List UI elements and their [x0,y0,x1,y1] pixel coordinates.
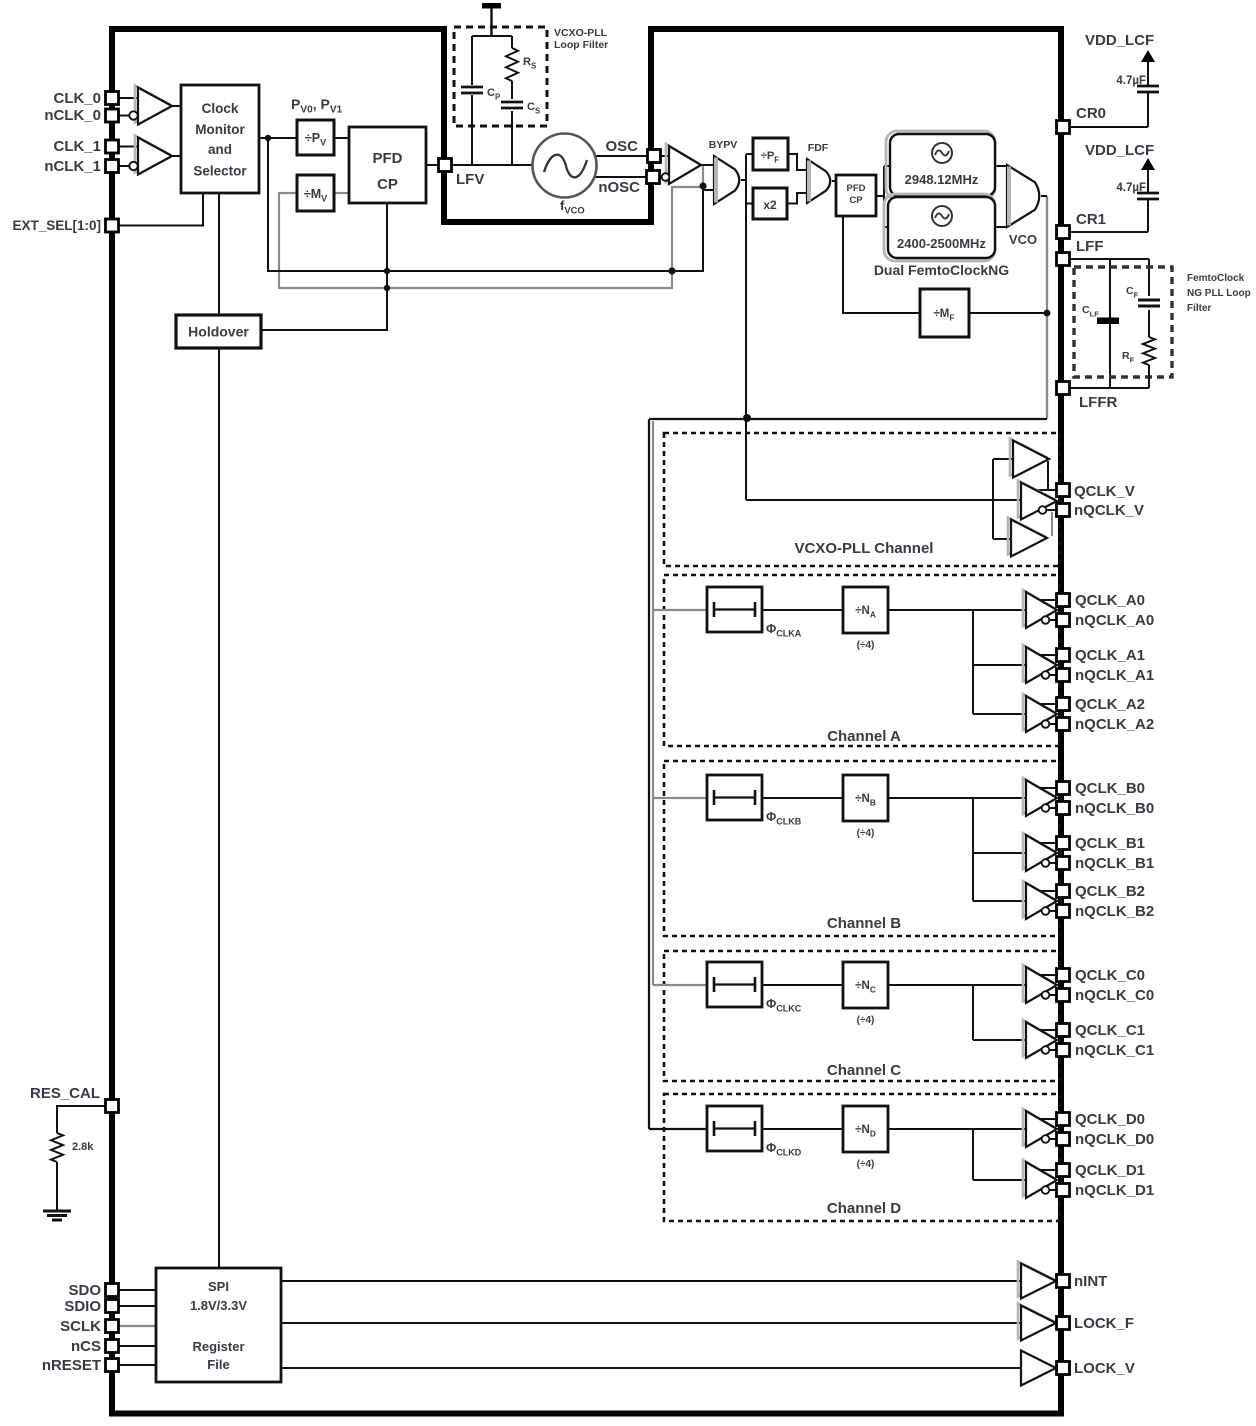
capacitor C_F [1138,299,1160,302]
svg-text:SCLK: SCLK [60,1318,101,1335]
svg-text:NG PLL Loop: NG PLL Loop [1187,288,1251,299]
pin QCLK_D1 [1057,1164,1070,1177]
svg-text:LFFR: LFFR [1079,394,1117,411]
pin nOSC [647,171,660,184]
wire: RES_CAL to external resistor [57,1106,107,1133]
svg-text:FDF: FDF [808,142,829,154]
wire: channel C phase block to divider N [762,984,843,986]
wire: bypass path from reference junction to BYPV mux [268,138,714,271]
wire: buffer1 output to Clock Monitor [172,155,181,157]
VCXO channel driver top [1010,439,1046,476]
wire: SPI to LOCK_V buffer [281,1367,1021,1369]
wire: nCLK_0 to input buffer bubble [119,115,130,117]
wire: VCC stem [490,8,492,36]
VCXO channel driver middle [1018,481,1054,518]
wire: channel D driver branch vertical [972,1129,974,1180]
wire: divider P_V to PFD CP [334,137,349,139]
svg-text:nQCLK_D0: nQCLK_D0 [1075,1131,1154,1148]
svg-text:VDD_LCF: VDD_LCF [1085,32,1154,49]
wire: SPI input SDO [119,1289,156,1291]
VCO mux [1007,165,1039,227]
wire: channel C branch to driver at y=1040 [973,1039,1025,1041]
svg-text:Channel B: Channel B [827,915,901,932]
svg-text:x2: x2 [763,198,777,212]
output driver QCLK_C1 [1023,1020,1054,1056]
pin LOCK_V [1057,1362,1070,1375]
wire: FemtoClock VCO output down (gray) [1046,196,1048,419]
wire: channel A branch to driver at y=714 [973,713,1025,715]
svg-text:nQCLK_B1: nQCLK_B1 [1075,855,1154,872]
svg-text:PFD: PFD [847,183,866,194]
phase adjust block channel B [707,775,762,820]
pin LFV [439,159,452,172]
svg-text:QCLK_B2: QCLK_B2 [1075,883,1145,900]
svg-text:CP: CP [849,195,863,206]
capacitor C_LF (filled bar) [1097,318,1119,325]
input buffer CLK_0/nCLK_0 [135,86,169,123]
BYPV mux [714,156,739,204]
svg-text:Holdover: Holdover [188,324,249,340]
pin nCS [106,1340,119,1353]
svg-text:4.7µF: 4.7µF [1116,182,1146,194]
wire: VCXO driver nQ output to nQCLK_V [1047,509,1062,511]
svg-text:nRESET: nRESET [42,1357,101,1374]
capacitor C_P [461,86,483,89]
svg-text:LFF: LFF [1076,238,1104,255]
pin QCLK_B1 [1057,837,1070,850]
wire: channel A driver branch vertical [972,610,974,714]
pin QCLK_B0 [1057,782,1070,795]
svg-text:QCLK_V: QCLK_V [1074,483,1135,500]
pin SDO [106,1284,119,1297]
svg-text:nCS: nCS [71,1338,101,1355]
wire: VCO distribution horizontal to channels [649,418,1047,420]
divider N_B block [843,775,888,821]
wire: VCXO channel branch vertical [992,459,994,539]
svg-text:nQCLK_B0: nQCLK_B0 [1075,800,1154,817]
pin QCLK_C1 [1057,1024,1070,1037]
svg-text:nQCLK_C0: nQCLK_C0 [1075,987,1154,1004]
wire: VCXO driver top output [1047,461,1049,490]
VCXO channel driver bottom [1008,518,1044,555]
FDF mux [807,159,830,203]
svg-text:Channel A: Channel A [827,728,901,745]
wire: SPI input nRESET [119,1364,156,1366]
junction: gray feedback crossing [668,267,675,274]
svg-text:Monitor: Monitor [195,122,245,137]
svg-text:PFD: PFD [373,150,403,167]
wire: Clock Monitor to divider P_V [259,137,297,139]
x2 multiplier block [753,188,787,219]
svg-text:(÷4): (÷4) [857,1159,875,1170]
crystal oscillator 2400-2500MHz [884,194,995,261]
FemtoClock NG PLL loop filter dashed box [1074,267,1172,377]
wire: OSC to notch pin [595,155,649,157]
svg-text:VCXO-PLL: VCXO-PLL [554,27,608,39]
svg-text:SPI: SPI [208,1279,229,1294]
svg-text:QCLK_B1: QCLK_B1 [1075,835,1145,852]
svg-text:CR1: CR1 [1076,211,1106,228]
wire: channel B phase block to divider N [762,797,843,799]
junction: reference to bypass [265,135,271,141]
pin nQCLK_V [1057,504,1070,517]
wire: PFD CP to dual oscillators bus [876,195,884,197]
svg-text:nQCLK_A2: nQCLK_A2 [1075,716,1154,733]
svg-text:SDIO: SDIO [64,1298,101,1315]
pin LOCK_F [1057,1317,1070,1330]
wire: channel C input stub (gray) [653,984,707,986]
wire: nOSC pin to buffer bubble [660,176,662,178]
svg-text:nQCLK_V: nQCLK_V [1074,502,1144,519]
svg-text:Channel D: Channel D [827,1200,901,1217]
svg-text:and: and [208,142,232,157]
svg-text:Register: Register [192,1339,244,1354]
svg-text:QCLK_A0: QCLK_A0 [1075,592,1145,609]
resistor R_S [506,48,518,81]
svg-text:Channel C: Channel C [827,1062,901,1079]
wire: channel C driver branch vertical [972,985,974,1040]
svg-text:QCLK_D1: QCLK_D1 [1075,1162,1145,1179]
Channel D dashed box [664,1094,1060,1221]
svg-text:Clock: Clock [202,101,239,116]
svg-text:QCLK_A2: QCLK_A2 [1075,696,1145,713]
pin QCLK_V [1057,484,1070,497]
divider N_C block [843,962,888,1008]
wire: Holdover to PFD CP vertical [261,203,387,330]
svg-text:SDO: SDO [68,1282,101,1299]
divider P_F block [753,138,788,170]
svg-text:LOCK_F: LOCK_F [1074,1315,1134,1332]
pin nQCLK_C1 [1057,1044,1070,1057]
pin CR1 [1057,226,1070,239]
svg-text:Filter: Filter [1187,303,1212,314]
wire: channel A input stub (gray) [653,609,707,611]
divider M_V block [297,175,334,211]
input buffer CLK_1/nCLK_1 [135,136,169,173]
svg-text:CLK_1: CLK_1 [53,138,101,155]
svg-text:nQCLK_A0: nQCLK_A0 [1075,612,1154,629]
pin nCLK_0 [106,109,119,122]
pin nRESET [106,1359,119,1372]
pin nCLK_1 [106,160,119,173]
svg-text:nQCLK_D1: nQCLK_D1 [1075,1182,1154,1199]
pin QCLK_C0 [1057,969,1070,982]
pin CR0 [1057,121,1070,134]
svg-text:CR0: CR0 [1076,105,1106,122]
chip boundary outline [112,29,1061,1414]
wire: channel distribution vertical (black) [648,419,650,1129]
junction: VCO output to feedback divider [1044,310,1051,317]
wire: LFV node to VCXO [452,164,534,166]
pin SDIO [106,1300,119,1313]
pin QCLK_A2 [1057,698,1070,711]
wire: channel D branch to driver at y=1180 [973,1179,1025,1181]
RES_CAL external resistor 2.8k [51,1133,63,1162]
svg-text:2.8k: 2.8k [72,1141,94,1153]
wire: VCXO channel input [746,499,1021,501]
wire: BYPV output distribution vertical [741,179,746,181]
wire: channel A divider N to driver 0 [888,609,1025,611]
wire: divider P_F to FDF mux [788,154,807,170]
capacitor 4.7uF CR1 [1137,192,1159,195]
pin nQCLK_A1 [1057,669,1070,682]
wire: OSC buffer to BYPV mux [701,164,714,166]
svg-text:VDD_LCF: VDD_LCF [1085,142,1154,159]
pin nINT [1057,1275,1070,1288]
wire: VCXO feedback to divider M_V (gray) [279,166,703,288]
wire: SCLK gray segment [119,1325,156,1327]
output driver QCLK_C0 [1023,965,1054,1001]
wire: PFD CP to LFV pin [426,164,448,166]
pin OSC [648,150,661,163]
divider P_V block [297,120,334,155]
svg-text:CLK_0: CLK_0 [53,90,101,107]
pin RES_CAL [106,1100,119,1113]
pin QCLK_A0 [1057,594,1070,607]
VCXO-PLL loop filter dashed box [454,27,547,126]
svg-text:nINT: nINT [1074,1273,1107,1290]
svg-text:QCLK_A1: QCLK_A1 [1075,647,1145,664]
SPI Register File block [156,1268,281,1382]
wire: channel C divider N to driver 0 [888,984,1025,986]
LOCK_V output buffer [1021,1351,1056,1386]
svg-text:nCLK_0: nCLK_0 [44,107,101,124]
feedback divider M_F block [920,289,969,337]
svg-text:OSC: OSC [605,138,638,155]
wire: BYPV to x2 [746,203,753,205]
wire: VCXO driver Q output to QCLK_V [1037,489,1062,491]
wire: channel B branch to driver at y=901 [973,900,1025,902]
wire: nCLK_1 to input buffer bubble [119,165,130,167]
crystal oscillator 2948.12MHz [886,131,995,199]
wire LFF node [1069,258,1149,260]
svg-text:File: File [207,1357,229,1372]
wire: nOSC to notch pin [595,176,648,178]
wire LFFR node [1069,387,1149,389]
pin QCLK_D0 [1057,1113,1070,1126]
svg-text:QCLK_C1: QCLK_C1 [1075,1022,1145,1039]
output driver QCLK_A2 [1023,694,1054,730]
output driver QCLK_B1 [1023,833,1054,869]
wire: channel D input stub [649,1128,707,1130]
svg-text:QCLK_D0: QCLK_D0 [1075,1111,1145,1128]
wire: Clock Monitor down to SPI register file [218,193,220,1268]
svg-text:VCXO-PLL Channel: VCXO-PLL Channel [795,540,934,557]
wire: CLK_0 to input buffer [119,97,138,99]
pin nQCLK_C0 [1057,989,1070,1002]
pin QCLK_B2 [1057,885,1070,898]
svg-text:(÷4): (÷4) [857,640,875,651]
pin nQCLK_B0 [1057,802,1070,815]
wire: buffer0 output to Clock Monitor [172,105,181,107]
wire: BYPV to divider P_F [746,153,753,155]
VCC power bar [482,3,501,9]
svg-text:LFV: LFV [456,171,484,188]
svg-text:QCLK_B0: QCLK_B0 [1075,780,1145,797]
pin nQCLK_D1 [1057,1184,1070,1197]
pin LFF [1057,253,1070,266]
svg-text:(÷4): (÷4) [857,1015,875,1026]
wire: channel distribution vertical (gray) [652,421,654,985]
Channel B dashed box [664,761,1060,936]
wire: oscillator outputs to VCO mux [995,165,1007,167]
wire: channel B divider N to driver 0 [888,797,1025,799]
divider N_A block [843,587,888,633]
output driver QCLK_D0 [1023,1109,1054,1145]
svg-text:nOSC: nOSC [598,179,640,196]
wire: EXT_SEL to Clock Monitor [119,193,203,226]
wire: OSC pin to buffer [660,155,669,157]
Channel C dashed box [664,951,1060,1081]
Holdover block [176,315,261,348]
svg-text:nCLK_1: nCLK_1 [44,158,101,175]
capacitor C_S [501,101,523,104]
svg-text:2400-2500MHz: 2400-2500MHz [897,236,986,251]
pin SCLK [106,1320,119,1333]
VCXO-PLL Channel dashed box [664,433,1060,566]
wire: x2 to FDF mux [787,193,807,204]
pin nQCLK_A2 [1057,718,1070,731]
svg-text:Selector: Selector [193,164,247,179]
wire: SPI input nCS [119,1345,156,1347]
wire: channel B input stub (gray) [653,797,707,799]
wire: loop filter R_S C_S branch [511,36,513,48]
nINT output buffer [1018,1262,1053,1297]
power arrow CR1 [1141,158,1155,170]
wire: channel B branch to driver at y=853 [973,852,1025,854]
svg-text:QCLK_C0: QCLK_C0 [1075,967,1145,984]
pin QCLK_A1 [1057,649,1070,662]
pin EXT_SEL[1:0] [106,219,119,232]
divider N_D block [843,1106,888,1152]
VCXO oscillator f_VCO [533,134,597,198]
svg-text:Loop Filter: Loop Filter [554,39,608,51]
wire: SPI to nINT buffer [281,1280,1021,1282]
ground symbol [43,1210,71,1213]
output driver QCLK_D1 [1023,1160,1054,1196]
pin nQCLK_D0 [1057,1133,1070,1146]
wire: VCXO driver bottom output (gray) [1051,512,1053,536]
svg-text:(÷4): (÷4) [857,828,875,839]
phase adjust block channel D [707,1106,762,1151]
svg-text:nQCLK_A1: nQCLK_A1 [1075,667,1154,684]
phase adjust block channel A [707,587,762,632]
wire: feedback divider M_F loop [843,216,920,313]
svg-text:BYPV: BYPV [709,139,738,151]
svg-text:1.8V/3.3V: 1.8V/3.3V [190,1298,247,1313]
svg-text:EXT_SEL[1:0]: EXT_SEL[1:0] [12,218,101,233]
wire: FDF mux to PFD CP (FemtoClock) [832,180,836,182]
wire: CLK_1 to input buffer [119,146,138,148]
wire: VCXO loop filter top bus [472,35,512,37]
wire: divider M_V output to PFD (gray) [334,192,349,194]
output driver QCLK_A0 [1023,590,1054,626]
phase adjust block channel C [707,962,762,1007]
OSC input buffer [666,144,698,182]
pin nQCLK_A0 [1057,614,1070,627]
pin CLK_0 [106,92,119,105]
power arrow CR0 [1141,50,1155,62]
svg-text:nQCLK_C1: nQCLK_C1 [1075,1042,1154,1059]
wire: loop filter C_P branch [471,36,473,85]
resistor R_F [1143,337,1155,365]
svg-text:2948.12MHz: 2948.12MHz [905,172,979,187]
wire: SPI to LOCK_F buffer [281,1322,1021,1324]
pin nQCLK_B1 [1057,857,1070,870]
svg-text:VCO: VCO [1009,232,1037,247]
output driver QCLK_A1 [1023,645,1054,681]
wire: SPI input SDIO [119,1305,156,1307]
wire: channel D divider N to driver 0 [888,1128,1025,1130]
PFD CP block (VCXO PLL) [349,127,426,203]
pin CLK_1 [106,140,119,153]
capacitor 4.7uF CR0 [1137,85,1159,88]
PFD CP block (FemtoClock) [836,175,876,216]
svg-text:CP: CP [377,176,398,193]
junction: distribution cross [743,414,751,422]
junction hop marks on PFD feedback vertical [384,268,390,274]
svg-text:FemtoClock: FemtoClock [1187,273,1245,284]
wire: channel B driver branch vertical [972,798,974,901]
pin nQCLK_B2 [1057,905,1070,918]
output driver QCLK_B2 [1023,881,1054,917]
wire: channel D phase block to divider N [762,1128,843,1130]
svg-text:LOCK_V: LOCK_V [1074,1360,1135,1377]
LOCK_F output buffer [1018,1304,1053,1339]
Clock Monitor and Selector block [181,85,259,193]
svg-text:nQCLK_B2: nQCLK_B2 [1075,903,1154,920]
wire: channel A branch to driver at y=665 [973,664,1025,666]
svg-text:RES_CAL: RES_CAL [30,1085,100,1102]
svg-text:Dual FemtoClockNG: Dual FemtoClockNG [874,262,1009,278]
wire: channel A phase block to divider N [762,609,843,611]
Channel A dashed box [664,575,1060,746]
pin LFFR [1057,382,1070,395]
output driver QCLK_B0 [1023,778,1054,814]
wire: VCO mux output [1041,195,1047,197]
svg-text:4.7µF: 4.7µF [1116,75,1146,87]
